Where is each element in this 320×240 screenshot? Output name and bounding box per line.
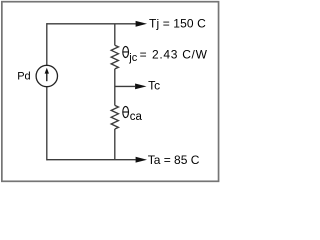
svg-text:=: =	[140, 47, 147, 61]
svg-text:2.43 C/W: 2.43 C/W	[152, 47, 208, 61]
svg-text:Tc: Tc	[148, 79, 160, 93]
svg-text:ca: ca	[130, 111, 143, 123]
svg-text:Pd: Pd	[17, 70, 30, 82]
svg-text:Ta = 85 C: Ta = 85 C	[148, 153, 200, 167]
svg-text:Tj = 150 C: Tj = 150 C	[149, 17, 206, 31]
svg-text:jc: jc	[128, 52, 137, 64]
